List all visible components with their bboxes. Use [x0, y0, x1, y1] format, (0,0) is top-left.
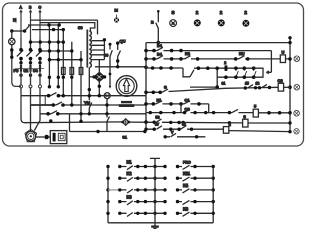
wire block join: [181, 104, 209, 113]
lamp HL4: [242, 20, 249, 27]
relay contact left row 4: [120, 201, 155, 205]
svg-text:N: N: [13, 18, 16, 23]
motor feed wires: [31, 105, 41, 131]
riser wire 3: [80, 51, 82, 121]
node dots breaker: [19, 61, 41, 77]
svg-text:15: 15: [245, 82, 249, 86]
bottom rail: [108, 222, 213, 224]
svg-text:2: 2: [224, 61, 226, 65]
bottom block right bus: [212, 165, 214, 223]
wire y131.5: [70, 114, 145, 132]
switch tap blade: [118, 43, 121, 67]
long rung y112.6 right part: [232, 109, 290, 112]
wire horizontal y67.5: [95, 66, 146, 68]
svg-text:30: 30: [78, 25, 83, 30]
wire rung1 corner down: [267, 51, 272, 74]
svg-text:C2: C2: [278, 78, 284, 83]
panel lamp X2: [294, 84, 300, 90]
wire bridge output: [98, 82, 100, 96]
svg-text:57: 57: [155, 122, 159, 126]
sensor coupling dot: [44, 135, 49, 140]
coil 5: [253, 109, 258, 117]
svg-text:61: 61: [222, 82, 226, 86]
contact row KM1 (y=95.7): [21, 95, 146, 97]
bracket loop: [254, 68, 263, 77]
coil C2: [278, 83, 283, 91]
rung 6 contacts K1: [146, 101, 181, 104]
wire motor to sensor: [36, 136, 44, 138]
svg-text:U4: U4: [33, 69, 38, 73]
svg-text:C3: C3: [185, 106, 191, 111]
tap collector wire: [103, 38, 106, 41]
node dots on QS bus: [10, 29, 26, 32]
ground: [154, 223, 156, 226]
svg-text:K11: K11: [183, 171, 191, 176]
relay contact right row 5: [155, 212, 213, 216]
stub wires grid: [31, 42, 82, 60]
ladder top rail: [146, 42, 290, 44]
meter PV: [9, 38, 15, 44]
heater FR1: [62, 68, 66, 75]
svg-text:90: 90: [104, 54, 108, 58]
phase line L2: [29, 11, 31, 39]
wire coupling: [49, 136, 50, 138]
contact row KM2 (y=104): [31, 104, 54, 106]
ladder right rail: [289, 38, 291, 132]
rung 3 wire: [146, 68, 254, 77]
switch QS bus wire: [12, 30, 25, 32]
rectifier VC bridge: [94, 72, 105, 81]
relay contact right row 3: [155, 189, 213, 193]
phase line L3: [39, 11, 41, 39]
svg-text:KU: KU: [239, 51, 245, 56]
device circle on row: [104, 93, 110, 99]
svg-text:91: 91: [123, 135, 128, 140]
connector circles X1: [20, 85, 23, 88]
wire below meter: [11, 45, 13, 50]
lamp HL2: [194, 19, 201, 26]
ladder left rail: [145, 43, 147, 132]
svg-text:12: 12: [256, 82, 260, 86]
wire coil B to rail: [229, 131, 290, 132]
indicator bar: [225, 65, 228, 71]
svg-text:61: 61: [182, 122, 186, 126]
sensor BR bar: [53, 133, 56, 142]
panel lamp X3: [294, 111, 300, 117]
relay contact right row 2: [155, 177, 213, 181]
rung 1 button SB1: [146, 47, 271, 50]
contact block C3 on long rung: [146, 109, 232, 112]
grid column extra 1: [28, 25, 59, 87]
svg-text:U2: U2: [24, 69, 29, 73]
lamp HL1: [170, 20, 177, 27]
rung D contacts: [146, 126, 223, 129]
svg-text:K8: K8: [183, 206, 189, 211]
svg-text:K3: K3: [127, 195, 133, 200]
wire core to bridge left: [89, 68, 94, 101]
wire column L1 to breaker: [21, 39, 40, 65]
label SA line1: [121, 101, 132, 103]
relay TM branch: [89, 103, 92, 114]
top feeder wire 1: [31, 19, 98, 21]
top feeder wire 2: [40, 23, 95, 31]
sensor BR box: [50, 131, 67, 144]
contact cluster rows: [217, 76, 254, 78]
svg-text:S: S: [172, 10, 175, 15]
svg-text:53: 53: [156, 116, 160, 120]
riser wire 1: [32, 30, 63, 96]
contact block C1: [181, 101, 209, 104]
breaker QF pole 1: [20, 65, 22, 72]
contact row KM3 (y=113.4) long wire: [40, 113, 146, 115]
svg-text:K4: K4: [185, 51, 191, 56]
wire branch y87: [190, 68, 217, 87]
rung E contact: [165, 133, 205, 136]
heater FR2: [70, 68, 74, 75]
bottom block center bus: [150, 158, 160, 222]
coil B: [223, 127, 228, 134]
wire transformer right drop: [98, 20, 105, 60]
svg-text:YM: YM: [84, 100, 90, 105]
bottom block left bus: [107, 165, 109, 223]
fuse on meter branch: [11, 51, 13, 56]
svg-text:3: 3: [229, 123, 231, 127]
heater FR3: [79, 68, 83, 75]
relay contact right row 4: [155, 200, 213, 204]
svg-text:B: B: [151, 20, 154, 25]
wire bridge top feed: [98, 60, 100, 73]
breaker QF pole 3: [39, 65, 41, 72]
relay contact left row 3: [108, 189, 120, 191]
svg-text:FU: FU: [14, 69, 19, 73]
svg-text:C: C: [39, 6, 42, 10]
relay contact left row 2: [120, 177, 155, 181]
transformer TC core: [86, 30, 88, 68]
breaker QF pole 2: [29, 65, 31, 72]
svg-text:K1: K1: [127, 160, 133, 165]
arrow wire right of bridge: [110, 44, 112, 86]
transformer TC primary winding: [89, 31, 91, 68]
contactor KM main contacts: [17, 50, 42, 56]
sensor BR inner square: [58, 133, 65, 140]
svg-text:U: U: [282, 50, 285, 55]
label SA line2: [119, 104, 135, 107]
rung 5 long wire: [146, 84, 278, 92]
selector switch SA: [116, 76, 137, 97]
lamp HL3: [218, 19, 225, 26]
svg-text:K2: K2: [127, 171, 133, 176]
feed wire SB0: [156, 11, 159, 43]
indicator symbol top middle: [114, 17, 119, 22]
panel lamp X1: [294, 56, 300, 62]
riser wire 2: [71, 42, 73, 105]
phase line L1: [20, 11, 22, 39]
long rung y122.9: [21, 119, 290, 124]
motor shield: [25, 129, 37, 142]
svg-text:K4: K4: [183, 183, 189, 188]
relay contact left row 1: [120, 166, 155, 170]
svg-text:PRC: PRC: [183, 161, 191, 165]
wire meter branch: [11, 31, 13, 38]
rectifier VC2 diamond: [122, 119, 129, 125]
svg-text:S: S: [164, 85, 167, 90]
node dots grid: [29, 23, 83, 115]
rung 2 contacts: [146, 58, 290, 60]
relay contact right row 1: [155, 165, 213, 169]
motor M: [26, 131, 36, 141]
svg-text:B4: B4: [157, 43, 163, 48]
breaker QF linkage: [15, 68, 44, 70]
node dots meter branch: [10, 48, 13, 59]
relay contact left row 5: [120, 213, 155, 217]
switch QS single blade: [25, 26, 30, 32]
svg-text:K1: K1: [157, 98, 163, 103]
svg-text:M: M: [115, 8, 118, 13]
column x107 down: [107, 99, 110, 132]
svg-text:C1: C1: [185, 98, 191, 103]
svg-text:B4: B4: [157, 52, 163, 57]
grid column extra 2: [57, 25, 59, 87]
coil KU: [280, 55, 285, 63]
border frame of main diagram: [3, 3, 304, 146]
svg-text:QU: QU: [120, 39, 126, 44]
transformer secondary taps: [92, 41, 105, 60]
coil 3: [243, 119, 248, 127]
wire L1 down: [21, 72, 40, 119]
panel lamp X4: [294, 129, 299, 134]
